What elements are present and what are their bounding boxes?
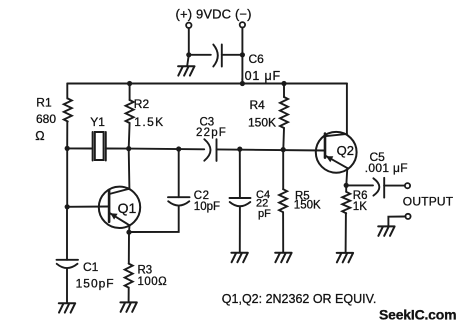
node (+) / C6 left junction [186,52,191,57]
node Q2 emitter / R6 / C5 [344,183,349,188]
wire emitter node to C5 [346,184,373,186]
svg-text:10pF: 10pF [194,201,220,213]
ground C4 [231,253,247,262]
wire crystal to base node [106,148,129,150]
capacitor C2 [168,149,190,206]
wire Q2 collector to rail [346,84,348,134]
svg-text:Ω: Ω [35,129,44,143]
ground R5 [275,253,291,262]
wire Q1 base [67,206,109,208]
ground C1 [59,303,75,312]
svg-text:.001 μF: .001 μF [365,161,408,175]
node left line / crystal wire [65,146,70,151]
svg-text:.01 μF: .01 μF [240,69,281,83]
svg-text:Y1: Y1 [90,115,105,129]
node C2 top [176,146,181,151]
svg-text:680: 680 [36,112,56,126]
wire (-) terminal down to rail [241,28,243,84]
node rail / R2 [127,81,132,86]
transistor Q1 [99,187,140,228]
wire top supply rail [67,83,347,85]
node left line / base wire [65,204,70,209]
svg-text:SeekIC.com: SeekIC.com [379,307,456,323]
svg-text:(+) 9VDC (−): (+) 9VDC (−) [176,6,252,21]
node C4 top [237,147,242,152]
node (-) line / top rail [240,81,245,86]
terminal output hot [405,183,410,188]
ground output [378,226,394,235]
node Q1 emitter / R3 / C2 [126,230,131,235]
resistor R2 [126,100,134,123]
resistor R6 [342,192,350,214]
svg-text:C6: C6 [249,52,265,66]
svg-text:OUTPUT: OUTPUT [403,195,454,209]
svg-text:1.5K: 1.5K [134,115,164,129]
svg-text:C1: C1 [83,260,99,274]
svg-text:pF: pF [258,208,271,220]
wire R3 to ground [128,288,130,302]
svg-text:Q2: Q2 [337,143,354,158]
svg-text:150K: 150K [248,115,276,129]
terminal output return [405,214,410,219]
wire rail to R4 [283,84,285,98]
wire R5 to ground [282,212,284,252]
capacitor C1 [57,260,79,303]
wire Q1 collector [128,149,131,189]
svg-text:150K: 150K [294,200,321,212]
terminal (+) [186,23,191,28]
svg-text:R4: R4 [250,98,266,112]
capacitor C4 [230,149,251,252]
wire R6 top [345,185,347,192]
node C6 right / (-) line [240,52,245,57]
capacitor C3 [204,139,216,161]
transistor Q2 [316,132,357,173]
capacitor C6 [191,45,242,67]
svg-text:C2: C2 [194,190,210,202]
ground (+) supply bypass [178,66,194,75]
svg-text:22pF: 22pF [196,127,227,139]
crystal Y1 [93,132,106,161]
node rail / R4 [281,81,286,86]
node Y1 / R2 / Q1 collector [126,146,131,151]
wire Q2 emitter [346,168,347,185]
wire R6 to ground [345,213,347,253]
wire base node down to C1 [66,207,68,260]
svg-text:R2: R2 [134,97,150,111]
wire emitter node to C2 bottom [129,206,179,232]
capacitor C5 [373,178,384,198]
resistor R5 [279,189,287,212]
svg-text:R1: R1 [36,96,52,110]
wire output return to ground [388,217,405,226]
wire emitter node to R3 [128,232,130,263]
wire R1 to crystal node [66,122,68,149]
svg-text:100Ω: 100Ω [138,276,168,288]
wire junction to top ground [187,55,189,66]
wire C5 to output terminal [384,185,405,187]
ground R3 [120,302,136,311]
svg-text:R3: R3 [138,264,153,276]
wire node to R5 [282,150,284,190]
node R4 / R5 [281,147,286,152]
terminal (-) [240,22,245,27]
wire node to crystal Y1 [67,147,92,149]
resistor R4 [280,97,288,128]
wire left line R1 node to base node [66,148,68,206]
wire rail to R2 [129,84,131,101]
wire Q1 emitter [128,225,131,232]
ground R6 [337,253,353,262]
wire R4 to node [282,128,285,150]
wire signal node to C2 and C3 [129,148,205,151]
svg-text:Q1: Q1 [118,200,137,216]
resistor R3 [125,264,133,288]
wire C3 to Q2 base [217,149,326,150]
wire (+) terminal down to C6 junction [188,28,190,55]
svg-text:150pF: 150pF [76,277,115,291]
wire R2 to node [128,123,131,149]
svg-text:Q1,Q2: 2N2362 OR EQUIV.: Q1,Q2: 2N2362 OR EQUIV. [222,292,376,306]
svg-text:1K: 1K [353,201,367,213]
resistor R1 [64,99,72,122]
wire rail to R1 [66,84,68,99]
